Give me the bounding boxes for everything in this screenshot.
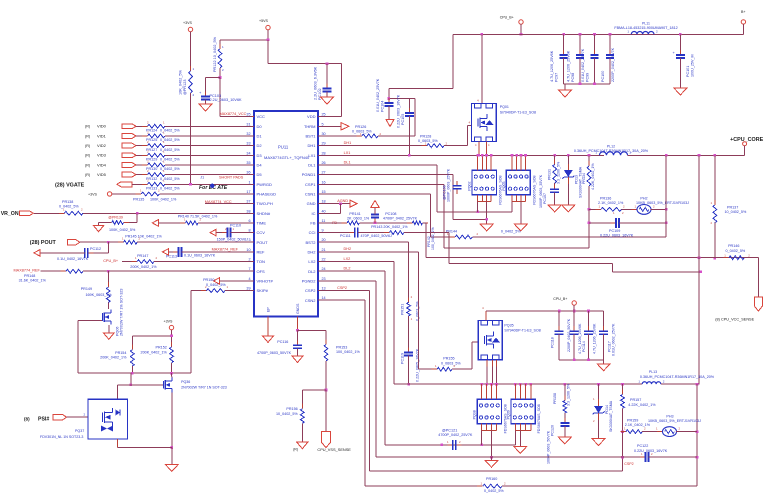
arrow left (REF row): [163, 249, 169, 256]
IC pin stubs right: [318, 116, 320, 118]
svg-text:VDD: VDD: [307, 114, 316, 119]
svg-text:PC112: PC112: [90, 247, 101, 251]
wire PR147 to IC: [154, 261, 254, 263]
wire PQ36 source down: [171, 393, 173, 448]
wire PR140 to IC: [198, 222, 254, 224]
wire DL2 row: [318, 270, 385, 272]
svg-text:0_0402_5%: 0_0402_5%: [726, 249, 746, 253]
svg-text:PR153: PR153: [336, 345, 347, 349]
power +5VS (top): [266, 25, 270, 29]
svg-text:29: 29: [322, 142, 326, 146]
wire CSN2 row: [318, 299, 365, 301]
ground under PC102: [321, 97, 334, 104]
capacitor PC119: [408, 348, 410, 353]
svg-text:Si7940DP-T1-E3_SO8: Si7940DP-T1-E3_SO8: [504, 329, 540, 333]
svg-text:BST1: BST1: [305, 134, 316, 139]
svg-text:CCI: CCI: [309, 230, 316, 235]
resistor PR129: [142, 154, 148, 156]
wire output column down: [696, 384, 698, 486]
wire DH1 to PQ01 gate: [444, 145, 468, 147]
svg-text:TWO-PH: TWO-PH: [257, 201, 273, 206]
resistor PR146: [723, 257, 729, 259]
resistor PR149 branch: [107, 271, 109, 287]
svg-text:PC101: PC101: [686, 66, 690, 77]
svg-text:PGND2: PGND2: [302, 279, 317, 284]
wire GNDS branch right: [298, 329, 327, 331]
svg-text:0.22U_0603_16V7K: 0.22U_0603_16V7K: [600, 233, 634, 237]
svg-text:10_0402_5%: 10_0402_5%: [276, 412, 298, 416]
svg-text:CCV: CCV: [257, 230, 266, 235]
wire CSP2 row: [318, 290, 369, 292]
svg-text:D1: D1: [257, 134, 263, 139]
svg-text:PR154: PR154: [115, 351, 126, 355]
transistor PQ35 high-side FET: [478, 321, 502, 360]
ground under PC120: [558, 437, 571, 444]
svg-text:1000P_0603_25V7K: 1000P_0603_25V7K: [447, 168, 451, 202]
resistor PR134: [588, 154, 591, 157]
svg-text:24: 24: [322, 267, 326, 271]
svg-text:FDV301N_NL 1N SOT23-3: FDV301N_NL 1N SOT23-3: [40, 435, 83, 439]
capacitor PC110: [222, 232, 228, 234]
wire to PR148: [41, 270, 66, 272]
svg-text:PR147: PR147: [137, 254, 148, 258]
wire DH2 gate drive via PR155: [419, 368, 438, 370]
wire +CPU_CORE rail: [628, 154, 745, 156]
wire VID1 to IC: [165, 135, 254, 137]
arrow left (VRHOT# row): [214, 278, 220, 285]
svg-text:AGND: AGND: [337, 199, 348, 203]
svg-text:9: 9: [322, 229, 324, 233]
wire VGATE to IC: [165, 183, 254, 185]
capacitor PC109: [589, 222, 616, 224]
capacitor PC107: [554, 184, 556, 189]
svg-text:VR_ON: VR_ON: [1, 211, 19, 217]
svg-text:17: 17: [246, 190, 250, 194]
svg-text:200K_0402_1%: 200K_0402_1%: [130, 265, 157, 269]
svg-text:4: 4: [248, 277, 250, 281]
svg-text:PH2: PH2: [640, 197, 647, 201]
svg-text:2200P_0402_50V7K: 2200P_0402_50V7K: [567, 318, 571, 352]
ground under PR139: [94, 226, 104, 232]
svg-text:28: 28: [322, 151, 326, 155]
svg-text:OFS: OFS: [257, 269, 266, 274]
svg-text:PC109: PC109: [609, 229, 620, 233]
svg-text:@PC121: @PC121: [442, 429, 457, 433]
capacitor PC114: [573, 311, 575, 331]
svg-text:3: 3: [248, 238, 250, 242]
wire PQ03 source stubs to ground: [511, 195, 513, 202]
svg-text:0.01U_0602_25V7K: 0.01U_0602_25V7K: [612, 323, 616, 356]
svg-text:PH3: PH3: [666, 415, 673, 419]
resistor PR132: [142, 174, 148, 176]
svg-text:PQ01: PQ01: [500, 105, 509, 109]
wire VRHOT# to IC: [220, 280, 255, 282]
ground under CPU_B+ caps: [597, 364, 610, 371]
wire B+ top rail: [453, 33, 743, 35]
wire PQ39 source stubs: [514, 424, 516, 431]
resistor PR155: [432, 368, 438, 370]
resistor PR123: [190, 66, 192, 71]
svg-text:(R): (R): [85, 163, 90, 167]
wire PR150 to IC: [225, 290, 254, 292]
wire PQ35 drain: [485, 311, 487, 321]
svg-text:4700P_0402_25V7K: 4700P_0402_25V7K: [383, 216, 418, 220]
wire rail to PC104 feed: [452, 34, 454, 88]
svg-text:PR160: PR160: [486, 477, 497, 481]
svg-text:CPU_B+: CPU_B+: [553, 297, 567, 301]
svg-text:2: 2: [248, 258, 250, 262]
capacitor PC100: [609, 33, 612, 36]
arrow left (CCV row): [210, 229, 216, 236]
capacitor PC118: [558, 311, 560, 331]
resistor PR148: [61, 270, 67, 272]
resistor PR135: [136, 193, 142, 195]
svg-text:470P_0402_50V6J: 470P_0402_50V6J: [361, 234, 393, 238]
svg-text:(R): (R): [85, 154, 90, 158]
resistor PR128: [422, 145, 428, 147]
svg-text:PC99: PC99: [586, 73, 590, 82]
diode PD14 zener: [598, 384, 600, 399]
svg-text:39: 39: [246, 287, 250, 291]
resistor PR156: [301, 404, 303, 409]
svg-text:PR145 10K_0402_1%: PR145 10K_0402_1%: [125, 234, 162, 238]
resistor PR127: [142, 145, 148, 147]
svg-text:LX1: LX1: [344, 151, 351, 155]
svg-text:PQ36: PQ36: [181, 380, 190, 384]
resistor PR144: [450, 236, 456, 238]
svg-text:4.22K_0402_1%: 4.22K_0402_1%: [628, 403, 656, 407]
wire VID0 to IC: [165, 125, 254, 127]
wire CPU_B+ rail mid: [486, 310, 604, 312]
svg-text:BST2: BST2: [305, 240, 316, 245]
resistor PR122: [219, 40, 221, 49]
svg-text:@PR123: @PR123: [183, 80, 187, 95]
svg-text:1: 1: [248, 180, 250, 184]
svg-text:3.3_1206_5%: 3.3_1206_5%: [567, 383, 571, 406]
svg-text:PR157: PR157: [630, 398, 641, 402]
svg-text:CSP2: CSP2: [337, 286, 347, 290]
svg-text:TON: TON: [257, 259, 265, 264]
transistor PQ38 low-side FET: [477, 399, 501, 423]
wire CSP2 sense line bottom: [369, 470, 622, 472]
wire PC110 to IC: [231, 232, 255, 234]
svg-text:PQ03: PQ03: [502, 181, 506, 190]
svg-text:PQ38: PQ38: [473, 410, 477, 419]
svg-text:MAX8774GTL+_TQFN40: MAX8774GTL+_TQFN40: [264, 155, 310, 160]
transistor PQ01 high-side FET: [472, 103, 497, 141]
wire LX1 rail: [318, 154, 604, 156]
capacitor PC117: [603, 311, 605, 331]
svg-text:POUT: POUT: [257, 240, 269, 245]
wire PQ36 drain: [171, 373, 173, 377]
thermistor PH2: [622, 208, 638, 210]
svg-text:PR137: PR137: [727, 205, 738, 209]
wire +CPU_CORE vertical to phase2: [698, 155, 700, 384]
resistor PR138: [59, 212, 65, 214]
svg-text:PR148: PR148: [24, 274, 35, 278]
svg-text:(R): (R): [293, 448, 298, 452]
svg-text:1000P_0603_50V7K: 1000P_0603_50V7K: [547, 430, 551, 464]
svg-text:16: 16: [322, 180, 326, 184]
arrow THRM: [318, 125, 341, 127]
wire PC113 to IC: [181, 251, 254, 253]
svg-text:PR128: PR128: [420, 134, 431, 138]
svg-text:CPU_B+: CPU_B+: [500, 16, 514, 20]
wire to PR147: [122, 261, 137, 263]
svg-text:PC116: PC116: [277, 340, 288, 344]
svg-text:34: 34: [246, 151, 250, 155]
svg-text:PC107: PC107: [543, 193, 547, 204]
svg-text:0_0603_5%: 0_0603_5%: [441, 361, 461, 365]
svg-text:FDS6676AS_SO8: FDS6676AS_SO8: [532, 175, 536, 204]
svg-text:8: 8: [248, 229, 250, 233]
svg-text:100_0402_1%: 100_0402_1%: [336, 350, 361, 354]
capacitor PC105: [408, 99, 410, 114]
resistor PR151: [408, 297, 410, 302]
resistor PR131 snubber: [553, 154, 556, 157]
svg-text:(28) POUT: (28) POUT: [30, 240, 57, 246]
svg-text:PQ37: PQ37: [75, 429, 84, 433]
svg-text:4700P_0402_25V7K: 4700P_0402_25V7K: [438, 433, 473, 437]
resistor PR136: [589, 208, 601, 210]
wire PR148 to IC: [83, 270, 254, 272]
svg-text:REF: REF: [257, 250, 266, 255]
svg-text:(R): (R): [85, 125, 90, 129]
wire PSI# to PQ37 gate: [67, 416, 89, 418]
svg-text:4700P_0603_50V7K: 4700P_0603_50V7K: [257, 351, 292, 355]
svg-text:36: 36: [246, 171, 250, 175]
svg-text:1000P_0603_35V7K: 1000P_0603_35V7K: [539, 174, 543, 208]
svg-text:D4: D4: [257, 163, 263, 168]
svg-text:PR156: PR156: [286, 407, 297, 411]
capacitor PC108 with supply arrow: [374, 217, 376, 223]
svg-text:PR122 10_0402_5%: PR122 10_0402_5%: [213, 36, 217, 72]
svg-text:0_0402_5%: 0_0402_5%: [501, 230, 521, 234]
svg-text:VID5: VID5: [97, 172, 107, 177]
wire CSN1 row: [318, 193, 431, 195]
capacitor PC106: [456, 181, 458, 186]
IC pin stubs left: [252, 116, 254, 118]
svg-text:PR141: PR141: [349, 212, 360, 216]
wire PL13 output to +CPU_CORE column: [661, 383, 699, 385]
wire from +3VS pullups to PR150: [191, 290, 206, 292]
svg-text:PR146: PR146: [728, 244, 739, 248]
svg-text:200K_0402_1%: 200K_0402_1%: [141, 350, 168, 354]
wire CCI row: [318, 232, 355, 234]
resistor on CCI row: [384, 232, 390, 234]
svg-text:5: 5: [322, 122, 324, 126]
svg-text:MAX8774_VCC: MAX8774_VCC: [220, 112, 247, 116]
wire VID4 to IC: [165, 164, 254, 166]
svg-text:FB: FB: [310, 221, 315, 226]
capacitor PC101: [679, 33, 682, 36]
resistor PR140: [180, 222, 186, 224]
wire VID3 to IC: [165, 154, 254, 156]
svg-text:23: 23: [322, 277, 326, 281]
svg-text:CPU_VSS_SENSE: CPU_VSS_SENSE: [317, 447, 351, 452]
ground under PC101: [674, 88, 687, 95]
resistor PR153: [325, 340, 327, 345]
resistor PR150: [201, 290, 207, 292]
svg-text:MAX8774_REF: MAX8774_REF: [212, 248, 239, 252]
svg-text:40: 40: [322, 209, 326, 213]
wire VID5: [136, 174, 148, 176]
wire PQ06 gate: [78, 319, 102, 321]
capacitor PC112 branch: [107, 242, 109, 253]
svg-text:SHDN#: SHDN#: [257, 211, 271, 216]
svg-text:PR135: PR135: [133, 197, 144, 201]
svg-text:2200P_0402_50V7K: 2200P_0402_50V7K: [611, 47, 615, 82]
svg-text:DL2: DL2: [344, 267, 351, 271]
capacitor PC120: [564, 418, 566, 423]
wire DH2 row: [318, 251, 419, 253]
svg-text:PR143 20K_0402_1%: PR143 20K_0402_1%: [371, 225, 408, 229]
wire LX2 row: [318, 261, 394, 263]
wire cap ground bus: [564, 83, 610, 85]
resistor PR152: [171, 342, 173, 347]
svg-text:LX2: LX2: [308, 259, 316, 264]
svg-text:0.22U_0603_16V7K: 0.22U_0603_16V7K: [397, 94, 401, 128]
svg-text:150P_0402_50V6J: 150P_0402_50V6J: [217, 238, 249, 242]
wire BST2 row: [318, 241, 409, 243]
svg-text:13: 13: [322, 287, 326, 291]
svg-text:SK33004AT_TSMA: SK33004AT_TSMA: [609, 400, 613, 432]
capacitor PC103: [206, 77, 221, 79]
wire VGATE: [132, 183, 148, 185]
svg-text:100_0402_1%: 100_0402_1%: [431, 227, 435, 250]
svg-text:32: 32: [246, 132, 250, 136]
svg-text:VID3: VID3: [97, 153, 107, 158]
svg-text:MAX8774_REF: MAX8774_REF: [14, 269, 41, 273]
ground under PC103: [199, 104, 212, 111]
svg-text:IC: IC: [312, 211, 316, 216]
wire VR_ON: [34, 212, 64, 214]
resistor PR141: [342, 222, 348, 224]
svg-text:PL13: PL13: [649, 370, 657, 374]
svg-text:+3VS: +3VS: [88, 192, 97, 196]
svg-text:169K_0603_1%: 169K_0603_1%: [85, 293, 112, 297]
svg-text:+5VS: +5VS: [259, 19, 268, 23]
svg-text:FBMA-L18-453215-900UMA90T_1812: FBMA-L18-453215-900UMA90T_1812: [614, 26, 677, 30]
svg-text:10K_0402_5%: 10K_0402_5%: [179, 69, 183, 95]
resistor PR158: [564, 384, 566, 400]
svg-text:FDS6676AS_SO8: FDS6676AS_SO8: [537, 404, 541, 433]
svg-text:10_0402_5%: 10_0402_5%: [725, 210, 747, 214]
wire CPU_B+ cap ground bus: [559, 359, 604, 361]
transistor PQ37 box: [88, 399, 128, 439]
svg-text:PQ39: PQ39: [507, 410, 511, 419]
wire CCI down to sense staircase: [448, 233, 450, 264]
svg-text:EP: EP: [267, 307, 271, 312]
thermistor PH3: [642, 431, 663, 433]
svg-text:DL2: DL2: [308, 269, 316, 274]
resistor PR133: [142, 183, 148, 185]
svg-text:PC120: PC120: [551, 425, 555, 436]
svg-text:B+: B+: [741, 10, 746, 14]
svg-text:2.1K_0402_1%: 2.1K_0402_1%: [625, 423, 651, 427]
svg-text:CSP2: CSP2: [305, 288, 316, 293]
wire PR138 to IC: [83, 212, 254, 214]
svg-text:(8): (8): [24, 417, 30, 422]
svg-text:0_0402_5%: 0_0402_5%: [484, 489, 504, 493]
ground under PC107: [548, 205, 561, 212]
wire POUT: [80, 241, 124, 243]
svg-text:0_0402_5%: 0_0402_5%: [160, 186, 180, 190]
svg-text:PHASEGD: PHASEGD: [257, 192, 277, 197]
resistor PR137: [714, 155, 716, 205]
svg-text:CSN1: CSN1: [305, 192, 316, 197]
svg-text:CSN2: CSN2: [305, 298, 316, 303]
svg-text:PR134: PR134: [582, 173, 586, 184]
wire FB sense line: [426, 257, 759, 259]
svg-text:2K_0603_1%: 2K_0603_1%: [347, 216, 370, 220]
wire PQ01 sources to LX1: [478, 142, 480, 156]
svg-text:0.01U_0402_25V7K: 0.01U_0402_25V7K: [376, 78, 380, 112]
svg-text:0_0603_5%: 0_0603_5%: [418, 139, 438, 143]
ground under PQ39: [514, 446, 527, 453]
svg-text:22: 22: [322, 258, 326, 262]
capacitor PC121: [447, 444, 453, 446]
svg-text:@PR139: @PR139: [108, 216, 123, 220]
svg-text:PR155: PR155: [443, 357, 454, 361]
wire DL1 down to gate bus: [436, 165, 438, 212]
svg-text:CPU_B+: CPU_B+: [103, 259, 119, 263]
wire LX2 rail: [394, 383, 642, 385]
svg-text:GND: GND: [307, 201, 316, 206]
svg-text:0.36UH_PCMC104T-R36MN1R17_30A_: 0.36UH_PCMC104T-R36MN1R17_30A_20%: [640, 375, 715, 379]
ground under PR156: [297, 442, 308, 449]
transistor PQ02 low-side FET: [472, 170, 497, 195]
wire VID0: [136, 125, 148, 127]
wire PGND1 row: [318, 174, 453, 176]
svg-text:PU11: PU11: [278, 145, 289, 150]
svg-text:VID2: VID2: [97, 143, 107, 148]
svg-text:10KB_0603_5%_ERTJ1VR103J: 10KB_0603_5%_ERTJ1VR103J: [636, 201, 689, 205]
svg-text:PR133: PR133: [146, 186, 157, 190]
power +3VS (top left): [188, 27, 192, 31]
svg-text:10: 10: [246, 248, 250, 252]
svg-text:0.1U_0402_16V7K: 0.1U_0402_16V7K: [57, 257, 89, 261]
svg-text:PC119: PC119: [401, 353, 405, 364]
svg-text:PC122: PC122: [637, 444, 648, 448]
wire PQ02 drain stubs: [477, 155, 479, 170]
resistor PR145: [118, 241, 124, 243]
svg-text:30: 30: [322, 132, 326, 136]
wire VID2: [136, 145, 148, 147]
svg-text:2.1K_0402_1%: 2.1K_0402_1%: [598, 201, 624, 205]
svg-text:D5: D5: [257, 172, 263, 177]
svg-text:PGND1: PGND1: [302, 172, 317, 177]
wire to PC110: [217, 232, 228, 234]
svg-text:PR131: PR131: [548, 169, 552, 180]
IC bottom pin GNDS stub: [297, 317, 299, 331]
wire VID4: [136, 164, 148, 166]
svg-text:+3VS: +3VS: [183, 21, 192, 25]
svg-text:21: 21: [322, 248, 326, 252]
wire PQ37 source: [116, 439, 118, 448]
svg-text:100U_25V_M: 100U_25V_M: [691, 54, 695, 77]
svg-text:PWRGD: PWRGD: [257, 182, 272, 187]
capacitor PC99: [593, 33, 596, 36]
power +3VS (pullup cluster): [169, 325, 173, 329]
ground under PQ36: [165, 464, 178, 471]
svg-text:PC100: PC100: [601, 71, 605, 82]
svg-text:SKIP#: SKIP#: [257, 288, 269, 293]
wire PR145 to IC: [137, 241, 254, 243]
svg-text:31: 31: [246, 122, 250, 126]
resistor PR160: [477, 485, 483, 487]
wire +5VS down-right to PC102/VDD: [267, 40, 269, 64]
